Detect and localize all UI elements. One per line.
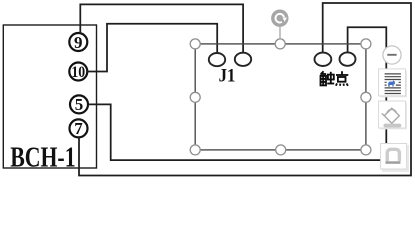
- wire net C: terminal 5 to right contact 2: [88, 27, 387, 160]
- wire net A: terminal 9 to contact J1 right: [80, 4, 243, 53]
- contact ellipse right pin 2: [340, 52, 356, 65]
- terminal 10: [69, 63, 87, 81]
- contact ellipse J1 pin 1: [209, 53, 225, 66]
- wire net B: terminal 10 to contact J1 left: [87, 24, 217, 72]
- svg-text:9: 9: [74, 33, 83, 52]
- terminal 5: [70, 95, 88, 114]
- shape style button: [381, 144, 409, 172]
- label dian (point) drawn strokes: [336, 71, 348, 86]
- relay box BCH-1: [3, 25, 96, 168]
- selection handle top-left: [190, 39, 200, 49]
- selection handle bottom-left: [190, 145, 200, 155]
- svg-text:J1: J1: [219, 65, 236, 86]
- rotate handle stem: [279, 27, 281, 39]
- svg-text:10: 10: [71, 64, 85, 81]
- svg-text:BCH-1: BCH-1: [10, 141, 75, 173]
- selection handle top-right: [361, 39, 371, 49]
- selection handle bottom-right: [361, 145, 371, 155]
- fill color button: [379, 101, 407, 129]
- collapse minus button: [383, 46, 401, 64]
- contact ellipse J1 pin 2: [235, 53, 251, 66]
- wire net D: terminal 7 to right contact 1: [79, 3, 411, 176]
- selection handle mid-right: [361, 92, 371, 102]
- contact ellipse right pin 1: [315, 53, 332, 66]
- label chu (touch) drawn strokes: [320, 71, 334, 85]
- layout options button: [379, 69, 407, 97]
- selection handle top-middle: [275, 39, 285, 49]
- terminal 9: [69, 33, 87, 52]
- rotate handle: [271, 10, 288, 27]
- svg-text:5: 5: [75, 95, 84, 114]
- contact group rectangle (selected shape): [195, 44, 366, 150]
- selection handle mid-left: [190, 92, 200, 102]
- selection handle bottom-middle: [276, 145, 286, 155]
- terminal 7: [70, 119, 88, 138]
- svg-text:7: 7: [74, 119, 83, 138]
